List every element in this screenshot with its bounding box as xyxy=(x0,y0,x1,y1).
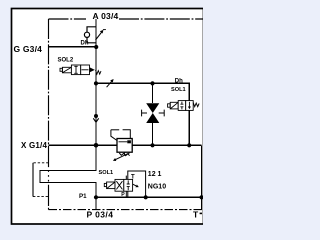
svg-text:SOL2: SOL2 xyxy=(58,58,74,64)
node: pilot valve tank junction xyxy=(144,195,148,199)
node: P line left junction xyxy=(94,195,98,199)
pilot valve cartridge outline xyxy=(128,171,146,197)
page background xyxy=(0,0,203,239)
wire: P1 bottom line xyxy=(96,196,203,198)
svg-text:X G1/4: X G1/4 xyxy=(21,141,47,150)
spring of SOL2 xyxy=(96,70,102,74)
pressure relief valve body xyxy=(117,139,132,153)
check-throttle Dh adjust arrow xyxy=(96,31,103,40)
flow direction arrow on main line xyxy=(94,114,98,118)
wire: throttle branch line xyxy=(96,83,189,100)
wire: bowtie valve lower xyxy=(152,123,154,145)
wire: dashed external pilot bracket xyxy=(33,163,49,197)
svg-text:SOL1: SOL1 xyxy=(99,170,114,176)
wire: G port line xyxy=(49,46,97,48)
solenoid valve SOL1 bottom xyxy=(104,179,132,191)
node: G/A junction xyxy=(94,45,98,49)
manifold boundary left edge xyxy=(48,19,50,166)
cartridge internal arrow xyxy=(131,183,136,186)
svg-text:NG10: NG10 xyxy=(148,184,166,191)
node: P/T corner junction xyxy=(199,195,203,199)
node: bowtie bottom junction xyxy=(150,143,154,147)
node: throttle branch junction xyxy=(94,81,98,85)
wire: staircase from A line to P line xyxy=(40,145,96,197)
wire: SOL1 top valve to relief line xyxy=(188,110,190,145)
wire: relief line right xyxy=(132,144,201,146)
shut-off valve bowtie upper triangle xyxy=(146,103,159,113)
spring of SOL1 top xyxy=(193,103,199,107)
wire: X port / relief line left xyxy=(49,144,118,146)
relief valve pilot loop xyxy=(111,130,130,141)
pilot valve bottom stub xyxy=(125,191,127,197)
svg-text:P 03/4: P 03/4 xyxy=(87,209,114,219)
variable throttle arrow on branch line xyxy=(107,80,113,87)
check-throttle Dh bypass loop xyxy=(87,27,96,43)
svg-text:SOL1: SOL1 xyxy=(171,87,186,93)
node: SOL1 top line junction xyxy=(187,143,191,147)
wire: P port stub xyxy=(95,197,97,209)
svg-text:P: P xyxy=(121,192,125,198)
shut-off valve bowtie lower triangle xyxy=(146,113,159,123)
relief valve spring xyxy=(119,153,129,156)
svg-text:G G3/4: G G3/4 xyxy=(14,44,43,54)
wire: bowtie valve upper xyxy=(152,83,154,103)
solenoid valve SOL2 xyxy=(60,65,90,75)
check-throttle Dh orifice ball xyxy=(84,32,89,37)
wire: T port vertical xyxy=(201,145,203,209)
node: bowtie top junction xyxy=(150,81,154,85)
relief valve adjust arrow xyxy=(115,153,130,160)
relief valve bottom stub xyxy=(124,152,126,154)
wire: A port main vertical xyxy=(95,19,97,145)
bowtie seat ticks xyxy=(142,110,165,117)
svg-text:Dh: Dh xyxy=(175,79,183,85)
manifold boundary bottom edge xyxy=(49,209,204,211)
solenoid valve SOL1 top xyxy=(168,101,194,111)
svg-text:Dh: Dh xyxy=(81,41,89,47)
manifold boundary top edge xyxy=(49,19,204,210)
pilot valve top stub xyxy=(125,176,127,180)
svg-text:12 1: 12 1 xyxy=(148,171,162,178)
svg-text:P1: P1 xyxy=(79,193,87,200)
drawing frame xyxy=(12,9,204,225)
svg-text:T: T xyxy=(193,209,199,219)
relief valve internal arrow xyxy=(119,141,128,143)
node: X line junction xyxy=(94,143,99,148)
